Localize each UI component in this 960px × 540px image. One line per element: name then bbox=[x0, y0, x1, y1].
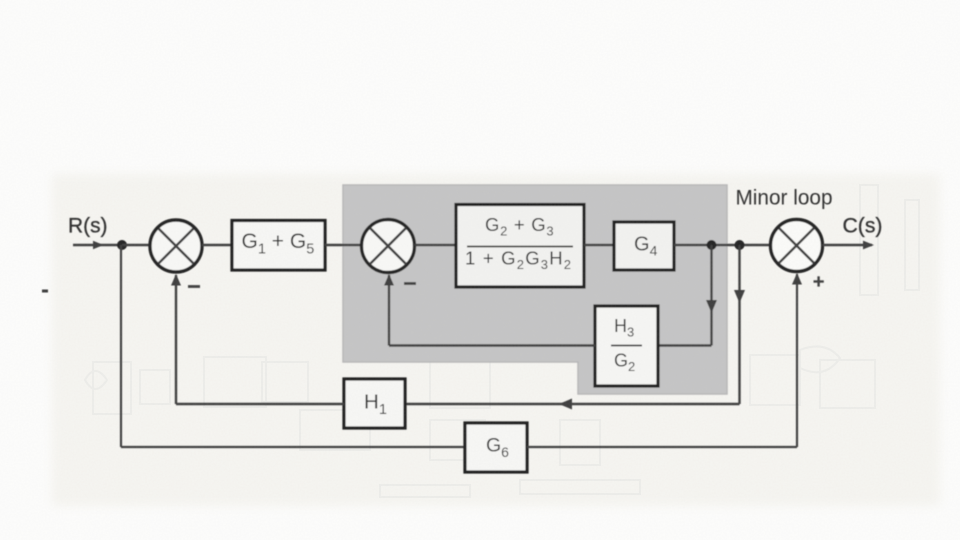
summing junction S3 bbox=[771, 220, 823, 272]
wire H3/G2 to summer S2 bbox=[384, 274, 595, 346]
wire node A down (G6 feedforward) bbox=[121, 245, 465, 447]
wire node C down (H1 feedback) bbox=[405, 245, 745, 410]
node A junction dot bbox=[117, 240, 127, 250]
plus sign at S3 bbox=[814, 276, 824, 286]
minus sign at S2 bbox=[404, 282, 416, 285]
wire G4 to summer S3 bbox=[674, 244, 770, 246]
wire output arrow to C(s) bbox=[823, 241, 875, 250]
block G4 bbox=[614, 222, 674, 270]
minus sign at S1 bbox=[188, 285, 200, 288]
summing junction S2 bbox=[362, 220, 415, 273]
node C junction dot bbox=[735, 240, 745, 250]
scanned page tint band bbox=[52, 174, 940, 506]
ghost scan artifacts band bbox=[85, 185, 919, 497]
wire G6 to summer S3 bbox=[527, 273, 802, 447]
wire node A to summer S1 bbox=[122, 244, 150, 246]
wire S2 to fraction block bbox=[415, 244, 457, 246]
node B junction dot bbox=[707, 240, 717, 250]
wire S1 to block G1+G5 bbox=[202, 244, 232, 246]
wire H1 to summer S1 bbox=[171, 274, 344, 404]
block G1+G5 bbox=[232, 221, 325, 271]
summing junction S1 bbox=[150, 220, 202, 272]
stray scan dash bbox=[42, 290, 48, 293]
wire node B down (minor feedback) bbox=[658, 245, 717, 346]
block (G2+G3)/(1+G2G3H2) bbox=[456, 205, 584, 288]
block H1 bbox=[344, 379, 405, 428]
block G6 bbox=[465, 423, 527, 472]
wire input arrow into node A bbox=[73, 241, 118, 250]
wire fraction block to G4 bbox=[584, 244, 614, 246]
wire G1+G5 to summer S2 bbox=[325, 244, 362, 246]
block H3/G2 bbox=[595, 306, 658, 386]
